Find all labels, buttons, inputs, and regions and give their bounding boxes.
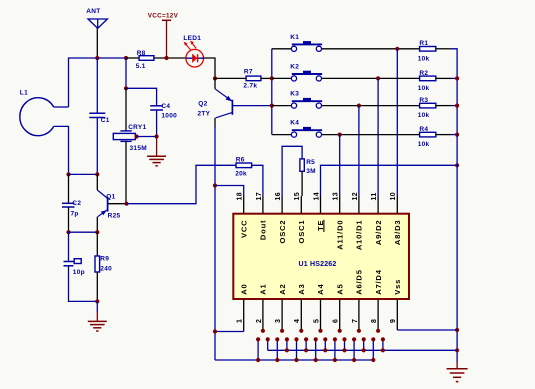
svg-text:3M: 3M: [306, 168, 316, 175]
node row-2 drop junction: [376, 76, 380, 80]
node pin 5 end: [318, 329, 322, 333]
pin 8 stub: [377, 299, 379, 331]
wire R4 to bus: [451, 134, 457, 136]
node weave bottom 8: [333, 358, 337, 362]
node main-cry junction: [124, 56, 128, 60]
svg-text:5.1: 5.1: [136, 63, 146, 70]
node weave top 1: [266, 337, 270, 341]
node weave top 2: [275, 337, 279, 341]
wire R8 left lead: [126, 57, 139, 59]
inductor L1: [20, 98, 54, 136]
wire weave stub 5: [305, 339, 307, 350]
pin 12 stub: [358, 196, 360, 214]
wire R6 to pin17: [252, 165, 263, 196]
wire R9 lower: [96, 272, 98, 301]
svg-text:R5: R5: [306, 159, 315, 166]
capacitor C4: [150, 105, 163, 107]
svg-text:10: 10: [390, 192, 397, 201]
wire weave stub 13: [382, 339, 384, 350]
svg-text:VCC: VCC: [239, 220, 248, 238]
svg-text:8: 8: [371, 319, 378, 323]
wire K4 row: [322, 134, 420, 136]
svg-text:LED1: LED1: [183, 35, 201, 42]
wire K2 row: [322, 77, 420, 79]
transistor Q1: [107, 197, 109, 212]
svg-text:A3: A3: [297, 283, 306, 294]
wire cross link 232: [69, 231, 98, 233]
svg-text:A7/D4: A7/D4: [374, 269, 383, 295]
node pin 6 end: [338, 329, 342, 333]
node rail pin1 junction: [213, 329, 217, 333]
pin 3 stub: [281, 299, 283, 331]
wire Q2 rail: [214, 127, 216, 360]
switch K1: [291, 46, 296, 51]
wire C1 upper: [96, 58, 98, 113]
wire drop to pin10: [396, 49, 398, 196]
svg-text:Vss: Vss: [393, 279, 402, 295]
svg-text:15: 15: [294, 192, 301, 201]
node bus pin9 junction: [455, 328, 459, 332]
wire weave stub 9: [344, 339, 346, 350]
node pin 4 end: [299, 329, 303, 333]
svg-text:5: 5: [313, 319, 320, 323]
node pin 2 end: [261, 329, 265, 333]
node weave top 5: [304, 337, 308, 341]
svg-text:A9/D2: A9/D2: [374, 220, 383, 246]
svg-text:16: 16: [275, 192, 282, 201]
wire weave stub 7: [324, 339, 326, 350]
wire weave stub 2: [276, 339, 278, 360]
svg-text:A5: A5: [335, 283, 344, 294]
resistor R4: [420, 132, 436, 137]
svg-text:10k: 10k: [418, 141, 430, 148]
pin 2 stub: [262, 299, 264, 331]
wire bottom bus: [215, 359, 373, 361]
pin 10 stub: [396, 196, 398, 214]
svg-text:14: 14: [313, 192, 320, 201]
svg-text:18: 18: [237, 192, 244, 201]
node VCC junction: [164, 56, 168, 60]
wire ground stem left: [96, 312, 98, 322]
svg-text:Dout: Dout: [259, 220, 268, 241]
transistor Q2: [231, 100, 233, 115]
node bus R4 junction: [455, 133, 459, 137]
wire crystal upper: [125, 88, 127, 131]
svg-text:13: 13: [333, 192, 340, 201]
node weave top 11: [362, 337, 366, 341]
node crystal branch: [124, 86, 128, 90]
wire R3 right lead: [436, 105, 451, 107]
node weave bottom 0: [256, 358, 260, 362]
pin 1 stub: [243, 299, 245, 332]
node Q1 base junction: [124, 202, 128, 206]
node weave top 6: [314, 337, 318, 341]
svg-text:4: 4: [294, 319, 301, 323]
node weave bottom 2: [275, 358, 279, 362]
crystal CRY1: [120, 130, 131, 132]
svg-text:9: 9: [390, 319, 397, 323]
wire crystal branch drop: [125, 58, 127, 88]
wire Q1 emitter lower: [96, 217, 98, 232]
svg-text:20k: 20k: [235, 170, 247, 177]
pin 4 stub: [300, 299, 302, 331]
wire Q2 collector lower: [214, 118, 216, 127]
node weave mid 5: [304, 348, 308, 352]
pin 11 stub: [377, 196, 379, 214]
resistor R8: [139, 56, 154, 61]
svg-text:C2: C2: [72, 200, 81, 207]
wire K1 left lead: [272, 48, 291, 50]
node left rail junction: [66, 172, 70, 176]
node bus R2 junction: [455, 76, 459, 80]
svg-text:7: 7: [352, 319, 359, 323]
pin 7 stub: [358, 299, 360, 331]
svg-text:A4: A4: [316, 283, 325, 294]
svg-text:7p: 7p: [71, 211, 79, 218]
resistor R2: [420, 76, 436, 81]
pin 18 stub: [243, 196, 245, 214]
resistor R5: [300, 159, 304, 171]
wire weave stub 0: [257, 339, 259, 360]
wire weave stub 12: [372, 339, 374, 360]
svg-text:2.7k: 2.7k: [243, 83, 257, 90]
wire C3 lower: [69, 266, 98, 302]
node weave top 4: [294, 337, 298, 341]
svg-text:A6/D5: A6/D5: [355, 269, 364, 295]
wire R1 right lead: [436, 48, 451, 50]
node row-4 drop junction: [338, 133, 342, 137]
node main-ant junction: [95, 56, 99, 60]
svg-text:A1: A1: [259, 283, 268, 294]
node row-1 drop junction: [395, 47, 399, 51]
wire drop to pin12: [358, 106, 360, 196]
wire middle weave line: [268, 339, 457, 350]
svg-text:K3: K3: [290, 91, 299, 98]
wire branch to C4: [126, 88, 157, 105]
node pin18 junction: [213, 183, 217, 187]
node weave top 3: [285, 337, 289, 341]
node weave mid 9: [342, 348, 346, 352]
node pin 7 end: [357, 329, 361, 333]
wire Q1 base lead: [108, 203, 127, 205]
pin 15 stub: [300, 196, 302, 214]
wire R7 right lead: [261, 77, 272, 79]
node weave mid 11: [362, 348, 366, 352]
wire ground stem right: [456, 362, 458, 369]
wire weave stub 11: [363, 339, 365, 350]
svg-text:17: 17: [256, 192, 263, 201]
wire main top: [69, 58, 127, 107]
svg-text:A11/D0: A11/D0: [335, 220, 344, 250]
wire C3 upper: [68, 232, 70, 261]
svg-text:OSC2: OSC2: [278, 220, 287, 244]
wire ground stem left blue: [96, 301, 98, 311]
svg-text:CRY1: CRY1: [128, 124, 146, 131]
ground left: [88, 320, 107, 322]
node pin 3 end: [280, 329, 284, 333]
node R7 junction: [213, 76, 217, 80]
pin 6 stub: [339, 299, 341, 331]
svg-text:2TY: 2TY: [198, 110, 211, 117]
node weave top 10: [352, 337, 356, 341]
wire weave stub 4: [296, 339, 298, 360]
node bus K3 junction: [270, 104, 274, 108]
pin 16 stub: [281, 196, 283, 214]
svg-text:K2: K2: [290, 63, 299, 70]
capacitor C1: [89, 112, 105, 114]
wire LED to corner: [204, 58, 215, 78]
svg-text:10k: 10k: [418, 85, 430, 92]
svg-text:315M: 315M: [130, 145, 147, 152]
capacitor C3: [64, 261, 74, 263]
node weave top 7: [323, 337, 327, 341]
wire R5 to pin15: [301, 171, 303, 196]
wire weave stub 8: [334, 339, 336, 360]
node bus R3 junction: [455, 104, 459, 108]
wire cross link 174: [69, 173, 98, 175]
node weave mid 3: [285, 348, 289, 352]
svg-text:6: 6: [333, 319, 340, 323]
wire VCC stem: [166, 20, 168, 58]
wire C1 lower: [96, 118, 98, 175]
svg-text:VCC=12V: VCC=12V: [148, 13, 179, 20]
wire K1 row: [322, 48, 420, 50]
pin 14 stub: [320, 196, 322, 214]
ground right: [447, 368, 468, 370]
wire weave stub 10: [353, 339, 355, 360]
wire Q1 base to R6: [127, 165, 237, 203]
wire Q1 collector upper: [96, 174, 98, 190]
wire K3 row: [322, 105, 420, 107]
node weave bottom 10: [352, 358, 356, 362]
svg-text:R25: R25: [108, 212, 121, 219]
node weave top 13: [381, 337, 385, 341]
svg-text:K1: K1: [290, 34, 299, 41]
wire L1 bottom lead: [54, 126, 69, 174]
wire weave stub 3: [286, 339, 288, 350]
svg-text:L1: L1: [20, 90, 28, 97]
node bus weave junction: [455, 348, 459, 352]
switch K2: [291, 76, 296, 81]
wire pin16 bracket: [282, 146, 302, 196]
svg-text:A0: A0: [239, 283, 248, 294]
svg-text:3: 3: [275, 319, 282, 323]
wire Q2 base: [232, 105, 271, 107]
resistor R6: [236, 163, 252, 168]
wire C4 lower: [156, 110, 158, 137]
wire drop to pin11: [377, 78, 379, 196]
wire crystal case to ground: [137, 136, 157, 138]
wire K4 left lead: [272, 134, 291, 136]
node center rail junction: [95, 172, 99, 176]
svg-text:A10/D1: A10/D1: [355, 220, 364, 251]
wire R4 right lead: [436, 134, 451, 136]
node crystal case junction: [135, 134, 139, 138]
resistor R3: [420, 103, 436, 108]
node left rail junction 232: [66, 230, 70, 234]
resistor R1: [420, 47, 436, 52]
node weave top 8: [333, 337, 337, 341]
wire drop to pin13: [339, 135, 341, 196]
node center rail junction 232: [95, 230, 99, 234]
wire Q2 emitter upper: [214, 78, 216, 88]
node ground junction left: [95, 299, 99, 303]
node weave bottom 12: [371, 358, 375, 362]
antenna ANT symbol: [88, 19, 107, 28]
node TE bus junction: [455, 163, 459, 167]
wire R9 upper: [96, 232, 98, 256]
node weave mid 13: [381, 348, 385, 352]
wire pin9 jog: [397, 329, 457, 331]
op-amp U1 HS2262 body: [233, 214, 409, 299]
ground crystal: [147, 155, 166, 157]
svg-text:10k: 10k: [418, 55, 430, 62]
resistor R7: [246, 76, 261, 81]
wire R3 to bus: [451, 105, 457, 107]
power VCC bar: [162, 19, 171, 21]
switch K3: [291, 103, 296, 108]
switch K4: [291, 132, 296, 137]
node weave top 9: [342, 337, 346, 341]
svg-text:10p: 10p: [73, 269, 85, 276]
wire R2 to bus: [451, 77, 457, 79]
wire right bus lower: [456, 135, 458, 362]
LED LED1: [186, 49, 204, 67]
svg-text:A2: A2: [278, 283, 287, 294]
wire pin18 link: [215, 186, 244, 197]
node weave bottom 6: [314, 358, 318, 362]
svg-text:U1 HS2262: U1 HS2262: [299, 261, 337, 268]
wire K3 left lead: [272, 105, 291, 107]
pin TE overline: [323, 220, 325, 232]
svg-text:OSC1: OSC1: [297, 220, 306, 244]
node weave top 12: [371, 337, 375, 341]
wire pin1 jog: [215, 331, 244, 333]
pin 17 stub: [262, 196, 264, 214]
svg-text:1000: 1000: [161, 112, 177, 119]
svg-text:2: 2: [256, 319, 263, 323]
svg-text:1: 1: [237, 319, 244, 323]
node bus K2 junction: [270, 76, 274, 80]
svg-text:Q2: Q2: [198, 100, 207, 107]
wire TE to right bus: [321, 165, 458, 196]
wire C2 lower: [68, 207, 70, 232]
node pin 8 end: [376, 329, 380, 333]
wire left switch bus: [271, 49, 273, 135]
svg-text:10k: 10k: [418, 112, 430, 119]
wire R8 right lead: [154, 57, 186, 59]
svg-text:A8/D3: A8/D3: [393, 220, 402, 246]
pin 9 stub: [396, 299, 398, 330]
node weave bottom 4: [294, 358, 298, 362]
wire C2 upper: [68, 174, 70, 203]
node row-3 drop junction: [357, 104, 361, 108]
svg-text:11: 11: [371, 192, 378, 200]
node weave mid 7: [323, 348, 327, 352]
svg-text:C4: C4: [161, 103, 170, 110]
wire antenna lead: [96, 28, 98, 58]
resistor R9: [95, 256, 100, 272]
svg-text:ANT: ANT: [86, 8, 100, 15]
svg-text:R9: R9: [100, 255, 109, 262]
svg-text:K4: K4: [290, 120, 299, 127]
svg-text:Q1: Q1: [106, 193, 115, 200]
wire K2 left lead: [272, 77, 291, 79]
wire L1 top lead: [54, 106, 69, 108]
svg-text:R7: R7: [244, 69, 253, 76]
wire right bus top corner: [451, 49, 457, 135]
capacitor C2: [62, 202, 75, 204]
svg-text:240: 240: [100, 265, 112, 272]
svg-text:C1: C1: [101, 117, 110, 124]
wire crystal lower: [125, 141, 127, 203]
svg-text:12: 12: [352, 192, 359, 201]
wire R2 right lead: [436, 77, 451, 79]
wire ground stem cry: [156, 137, 158, 157]
pin 5 stub: [320, 299, 322, 331]
node weave top 0: [256, 337, 260, 341]
wire R7 left lead: [215, 77, 246, 79]
pin 13 stub: [339, 196, 341, 214]
node C4-crystal junction: [155, 134, 159, 138]
wire weave stub 6: [315, 339, 317, 360]
